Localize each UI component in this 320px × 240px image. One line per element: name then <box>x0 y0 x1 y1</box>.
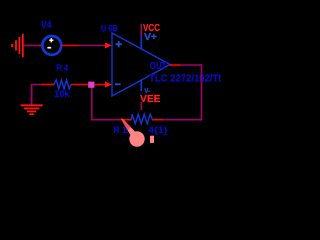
wire V4 left pin stub <box>39 45 42 47</box>
wire riser to - input junction <box>91 87 93 121</box>
resistor R1 left lead <box>122 119 132 121</box>
resistor R4 body (zigzag) <box>54 80 71 89</box>
feedback wire: out to corner, down, and left along bottom <box>181 64 203 66</box>
junction node (selected, magenta square) <box>88 82 94 88</box>
op-amp OUT pin stub <box>170 64 181 66</box>
svg-text:R 4: R 4 <box>56 63 68 73</box>
ground GND1 (top-left, rotated earth ground) <box>12 34 23 58</box>
V4 minus mark (white) <box>47 47 51 49</box>
op-amp + input marker <box>116 41 122 47</box>
resistor R1 right lead <box>152 119 162 121</box>
svg-text:VEE: VEE <box>140 93 161 105</box>
voltage source V4 (circle body) <box>42 36 61 55</box>
wire V4 to op-amp + input <box>79 45 105 47</box>
op-amp - input pin arrow <box>105 81 112 87</box>
VEE power symbol stub <box>140 102 142 110</box>
op-amp V- pin <box>140 81 142 92</box>
svg-text:4{1}: 4{1} <box>148 125 168 136</box>
wire bottom to - input branch <box>92 119 122 121</box>
cursor shaft dark edge <box>121 118 131 130</box>
mouse cursor (salmon probe/balloon pointer) <box>121 118 154 146</box>
V4 plus mark (white) <box>49 38 53 42</box>
resistor R4 right lead / wire to op-amp - input <box>71 84 108 86</box>
VCC power symbol stub <box>140 24 142 36</box>
svg-text:TLC 2272/102/TI: TLC 2272/102/TI <box>149 73 221 85</box>
svg-text:V4: V4 <box>41 20 52 31</box>
ground GND2 (bottom-left) <box>31 85 33 105</box>
op-amp - input marker <box>115 83 121 85</box>
resistor R1 body (zigzag) <box>132 114 153 124</box>
svg-text:10k: 10k <box>54 89 70 99</box>
resistor R4 left lead <box>41 84 54 86</box>
op-amp V+ pin <box>140 36 142 49</box>
svg-text:V+: V+ <box>144 32 157 43</box>
wire R4 branch corner (down to bottom ground) <box>32 85 42 105</box>
svg-text:OUT: OUT <box>150 60 167 72</box>
svg-text:U 6B: U 6B <box>101 23 118 34</box>
op-amp U6B body (triangle) <box>112 33 170 96</box>
wire ground GND1 to V4 minus terminal <box>24 45 39 47</box>
op-amp + input pin stub <box>105 45 109 47</box>
op-amp + input pin arrow <box>105 42 112 48</box>
wire V4 right pin stub <box>61 45 78 47</box>
